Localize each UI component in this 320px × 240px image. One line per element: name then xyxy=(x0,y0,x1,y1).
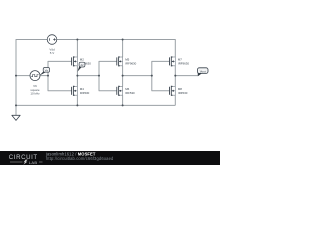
label V6 value xyxy=(30,84,40,96)
wire: col2 M5 drain to M6 drain xyxy=(122,66,124,87)
wire: col2 M6 source to ground rail xyxy=(122,95,124,105)
CircuitLab logo xyxy=(9,154,43,165)
wire: col1 M4 source to ground rail xyxy=(76,95,78,105)
footer text xyxy=(45,152,114,162)
transistor M2 (PMOS stage1) xyxy=(72,56,78,66)
wire: gate bus stage 2 xyxy=(99,61,117,90)
wire: stage3 output to Vout flag xyxy=(175,75,198,77)
transistor M5 (PMOS stage2) xyxy=(117,56,123,66)
wire: V6 left lead xyxy=(16,75,30,77)
wire: bottom ground rail xyxy=(16,104,175,106)
label Vdd value xyxy=(49,47,55,55)
transistor M8 (NMOS stage3) xyxy=(170,86,176,96)
svg-text:LAB: LAB xyxy=(29,160,38,165)
node flag A (stage1 output) xyxy=(77,62,85,71)
voltage source V6 square xyxy=(30,71,40,81)
label M8 IRF530 xyxy=(178,87,188,95)
wire: col3 M7 drain to M8 drain xyxy=(174,66,176,87)
junction node dots xyxy=(15,39,176,107)
svg-text:IRF530: IRF530 xyxy=(178,91,188,95)
svg-text:IRF530: IRF530 xyxy=(80,91,90,95)
wire: col2 Vdd to M5 source xyxy=(122,40,124,58)
svg-text:Vout: Vout xyxy=(200,69,206,73)
footer bar xyxy=(0,151,220,165)
svg-text:IRF9630: IRF9630 xyxy=(178,61,189,65)
label M6 IRF530 xyxy=(125,87,135,95)
ground xyxy=(12,115,20,120)
transistor M6 (NMOS stage2) xyxy=(117,86,123,96)
svg-text:IRF9630: IRF9630 xyxy=(125,61,136,65)
svg-text:http://circuitlab.com/c66f3gd6: http://circuitlab.com/c66f3gd6oaed xyxy=(46,156,114,161)
label M5 IRF9630 xyxy=(125,57,136,65)
wire: col1 M2 drain to M4 drain xyxy=(76,66,78,87)
label M4 IRF530 xyxy=(80,87,90,95)
svg-text:IRF530: IRF530 xyxy=(125,91,135,95)
wire: col3 M8 source to ground rail xyxy=(174,95,176,105)
wire: stage1 output to stage2 gate bus xyxy=(77,75,99,77)
wire: ground stem xyxy=(15,105,17,115)
wire: V6 right lead to input bus xyxy=(40,75,48,77)
label M2 IRF9630 xyxy=(80,57,91,65)
node flag Vin xyxy=(39,68,49,76)
wire: left vertical rail + top-left corner to Vdd xyxy=(16,40,47,106)
wire: gate bus stage 3 xyxy=(152,61,170,90)
node flag Vout xyxy=(197,68,208,76)
svg-text:10 kHz: 10 kHz xyxy=(30,92,40,96)
wire: input gate bus stage 1 xyxy=(48,61,72,90)
wire: stage2 output to stage3 gate bus xyxy=(123,75,152,77)
transistor M7 (PMOS stage3) xyxy=(170,56,176,66)
wire: col1 Vdd to M2 source xyxy=(76,40,78,58)
voltage source Vdd xyxy=(47,35,57,45)
wire: top rail from Vdd to top-right corner down to M7 source xyxy=(57,40,175,58)
transistor M4 (NMOS stage1) xyxy=(72,86,78,96)
label M7 IRF9630 xyxy=(178,57,189,65)
svg-text:5 V: 5 V xyxy=(50,51,55,55)
